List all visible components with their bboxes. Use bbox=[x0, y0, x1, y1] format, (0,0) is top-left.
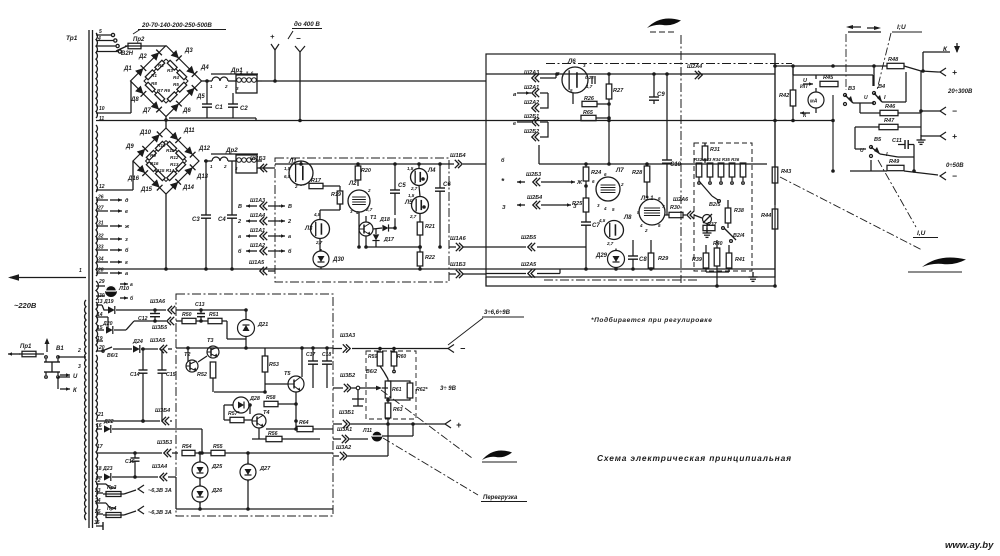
capacitor C17 bbox=[306, 346, 318, 388]
switch B2/4 bbox=[722, 227, 745, 243]
svg-text:R39: R39 bbox=[692, 257, 702, 263]
svg-text:2: 2 bbox=[223, 164, 227, 169]
svg-text:12: 12 bbox=[99, 184, 105, 190]
svg-text:С5: С5 bbox=[398, 183, 406, 189]
resistor R39 bbox=[692, 245, 709, 272]
svg-text:2,7: 2,7 bbox=[315, 240, 323, 245]
svg-text:20-70-140-200-250-500В: 20-70-140-200-250-500В bbox=[141, 22, 212, 29]
svg-text:2,7: 2,7 bbox=[365, 207, 373, 212]
svg-text:Ш1А6: Ш1А6 bbox=[450, 236, 467, 242]
tap 14 bbox=[96, 312, 108, 330]
svg-text:Д30: Д30 bbox=[332, 257, 345, 263]
svg-text:R55: R55 bbox=[213, 444, 223, 450]
tap 17 row bbox=[96, 440, 178, 457]
resistor R25 bbox=[572, 198, 589, 222]
tap 34 bbox=[96, 257, 128, 267]
svg-text:Ш2А1: Ш2А1 bbox=[524, 85, 539, 91]
capacitor C18 bbox=[322, 346, 332, 388]
svg-text:R44: R44 bbox=[761, 213, 772, 219]
svg-text:U: U bbox=[73, 374, 78, 380]
svg-text:R58: R58 bbox=[266, 395, 276, 401]
resistor R62 bbox=[388, 381, 429, 400]
svg-text:I;U: I;U bbox=[897, 24, 906, 31]
svg-text:Ш1Б3: Ш1Б3 bbox=[250, 156, 267, 162]
capacitor C8 bbox=[628, 240, 647, 269]
svg-text:18: 18 bbox=[96, 466, 102, 472]
led D27 bbox=[240, 453, 271, 509]
svg-text:б: б bbox=[288, 248, 292, 255]
svg-text:ИП: ИП bbox=[800, 84, 808, 90]
tap 24 bbox=[94, 498, 116, 508]
led D21 bbox=[238, 308, 269, 348]
svg-text:С2: С2 bbox=[240, 106, 248, 112]
unit2 dash-dot top bbox=[546, 63, 792, 65]
dash-dot diag overload2 bbox=[383, 438, 478, 495]
svg-text:С17: С17 bbox=[306, 352, 315, 358]
svg-text:Т5: Т5 bbox=[284, 371, 291, 377]
resistor R53 bbox=[262, 348, 279, 373]
svg-text:2: 2 bbox=[367, 188, 371, 193]
title schema bbox=[597, 453, 792, 463]
wire D28 T4 bbox=[224, 403, 252, 414]
svg-text:R8: R8 bbox=[151, 81, 157, 86]
label D15 bbox=[140, 187, 153, 193]
unit2 dash-dot vert bbox=[680, 35, 682, 283]
wire L1 top bbox=[299, 161, 303, 166]
svg-text:26: 26 bbox=[97, 195, 104, 201]
svg-text:Д23: Д23 bbox=[102, 466, 113, 472]
connector Sh2A4 bbox=[687, 64, 702, 79]
svg-text:R10: R10 bbox=[157, 143, 166, 148]
tap 26 bbox=[96, 195, 129, 205]
svg-text:13: 13 bbox=[97, 299, 103, 305]
tube L7 bbox=[592, 167, 624, 212]
svg-text:R46: R46 bbox=[885, 104, 896, 110]
svg-text:В4: В4 bbox=[878, 84, 886, 90]
svg-text:Пр2: Пр2 bbox=[133, 37, 145, 43]
tap label 4 bbox=[97, 36, 101, 42]
wire bridge1 bottom bbox=[164, 117, 168, 122]
main mid rail bbox=[96, 120, 775, 122]
svg-text:R57*: R57* bbox=[228, 411, 241, 417]
svg-text:5: 5 bbox=[99, 29, 102, 35]
resistor R52 bbox=[197, 362, 216, 392]
connector Sh1B4 bbox=[449, 153, 505, 168]
choke Dr2 bbox=[210, 147, 262, 173]
diode D18 bbox=[379, 217, 390, 232]
svg-text:Д20: Д20 bbox=[102, 321, 113, 327]
fuse Pr4 bbox=[94, 506, 172, 518]
transformer secondary winding 8 bbox=[96, 482, 98, 524]
panel vert x833 bbox=[831, 95, 835, 173]
wire L7 anode bbox=[608, 121, 609, 178]
svg-text:В: В bbox=[288, 204, 292, 210]
svg-text:Д7: Д7 bbox=[142, 108, 151, 114]
svg-text:Д9: Д9 bbox=[125, 144, 134, 150]
svg-text:Л8: Л8 bbox=[623, 215, 632, 221]
svg-text:з: з bbox=[125, 237, 128, 243]
arrow K meter bbox=[800, 111, 810, 119]
svg-text:2: 2 bbox=[294, 184, 298, 189]
wire bridge2 out bbox=[204, 160, 212, 162]
svg-text:С16: С16 bbox=[125, 459, 135, 465]
svg-text:б: б bbox=[501, 157, 505, 164]
svg-text:R59: R59 bbox=[368, 354, 377, 360]
transformer secondary winding 5 bbox=[96, 302, 98, 352]
wire A5 cross bbox=[274, 270, 276, 272]
row R50 R51 bbox=[176, 312, 246, 339]
svg-text:22: 22 bbox=[94, 478, 101, 484]
dash-dot to B3 bbox=[845, 34, 847, 90]
connector Sh3B1 row bbox=[333, 410, 445, 428]
svg-text:Л7: Л7 bbox=[615, 167, 624, 174]
svg-text:1,5: 1,5 bbox=[284, 166, 291, 171]
svg-text:Л2: Л2 bbox=[348, 181, 357, 187]
label D16 bbox=[127, 176, 140, 182]
label I;U top bbox=[892, 24, 922, 32]
resistor R37 bbox=[703, 222, 718, 231]
svg-text:Ш3А1: Ш3А1 bbox=[337, 427, 352, 433]
wire B5 net bbox=[855, 127, 916, 173]
svg-text:С18: С18 bbox=[322, 352, 331, 358]
return rail bbox=[96, 268, 486, 270]
svg-text:R37: R37 bbox=[707, 222, 718, 228]
svg-text:Д28: Д28 bbox=[249, 396, 260, 402]
svg-text:Ш1Б3: Ш1Б3 bbox=[450, 262, 467, 268]
svg-text:10: 10 bbox=[99, 106, 105, 112]
svg-text:2,7: 2,7 bbox=[606, 241, 614, 246]
label D8 bbox=[130, 97, 139, 103]
svg-text:2,7: 2,7 bbox=[410, 186, 418, 191]
tap label 5 bbox=[99, 29, 102, 35]
transformer secondary winding 2 bbox=[96, 125, 97, 192]
wire fuse to bridge bbox=[144, 45, 166, 47]
svg-text:В5: В5 bbox=[874, 137, 882, 143]
star note bbox=[501, 177, 506, 211]
svg-text:Л4: Л4 bbox=[427, 168, 436, 174]
wire B1 to tr bbox=[58, 348, 86, 377]
switch B6/2 bbox=[366, 369, 388, 379]
svg-text:R52: R52 bbox=[197, 372, 207, 378]
ground panel bbox=[917, 135, 926, 144]
svg-text:R54: R54 bbox=[182, 444, 192, 450]
wire R39-41 bottom bbox=[706, 272, 729, 288]
mains wire arrow bbox=[8, 268, 86, 281]
svg-text:Схема электрическая принципи: Схема электрическая принципиальная bbox=[597, 453, 792, 463]
svg-text:а: а bbox=[125, 271, 128, 277]
svg-text:0,22: 0,22 bbox=[585, 75, 594, 80]
svg-text:2: 2 bbox=[644, 228, 648, 233]
svg-text:Т1: Т1 bbox=[370, 215, 377, 221]
svg-text:Ш2Б4: Ш2Б4 bbox=[527, 195, 542, 201]
resistor R64 bbox=[266, 420, 333, 432]
resistor R48 bbox=[887, 57, 938, 72]
wire bridge2 bottom down bbox=[164, 194, 168, 271]
resistor R49 bbox=[850, 159, 938, 175]
connector Ш2Б1 bbox=[524, 114, 539, 126]
svg-text:мА: мА bbox=[810, 99, 818, 105]
transformer secondary winding 6 bbox=[96, 355, 97, 420]
dash-dot diag overload1 bbox=[381, 390, 472, 458]
tube L8 bbox=[598, 215, 632, 246]
label D14 bbox=[182, 185, 195, 191]
svg-text:С11: С11 bbox=[892, 138, 902, 144]
row Sh3A5 wire bbox=[176, 346, 333, 362]
wire B4 to R48 bbox=[872, 64, 876, 86]
svg-text:R19: R19 bbox=[331, 192, 341, 198]
svg-text:R11: R11 bbox=[166, 148, 175, 153]
svg-text:2: 2 bbox=[237, 219, 241, 225]
wire Dr1 out bbox=[262, 80, 486, 82]
tap 20 switch B6/1 bbox=[96, 345, 132, 359]
unit2 inner dashed box bbox=[694, 143, 752, 271]
svg-text:В1: В1 bbox=[56, 346, 64, 352]
wire Dr2 to connector bbox=[257, 161, 275, 168]
svg-text:R3: R3 bbox=[167, 68, 173, 73]
transistor T4 bbox=[252, 410, 270, 428]
unit1 wires bbox=[301, 185, 340, 251]
resistor R19 bbox=[331, 186, 343, 210]
svg-text:R31: R31 bbox=[710, 147, 720, 153]
connector Sh2B5 row bbox=[486, 235, 586, 251]
meter IP bbox=[800, 84, 824, 113]
label voltage row bbox=[133, 22, 226, 34]
wire T1 D17 D18 bbox=[366, 216, 420, 247]
svg-text:Д4: Д4 bbox=[200, 65, 209, 71]
svg-text:R4: R4 bbox=[173, 75, 179, 80]
terminal minus2 bbox=[940, 171, 957, 181]
resistor R44 bbox=[761, 209, 778, 288]
connector Ш1А2 bbox=[238, 243, 292, 255]
wire to B2/5 bbox=[694, 215, 702, 218]
label D3 bbox=[184, 48, 193, 54]
selector wires bbox=[699, 181, 720, 202]
switch B1 bbox=[44, 346, 64, 378]
svg-text:1: 1 bbox=[79, 268, 82, 274]
svg-text:16: 16 bbox=[96, 423, 102, 429]
resistor R22 bbox=[417, 245, 435, 271]
dashed box B6 bbox=[366, 351, 416, 419]
transistor T5 bbox=[265, 346, 304, 429]
svg-text:~6,3В 3А: ~6,3В 3А bbox=[148, 488, 172, 494]
capacitor C15 bbox=[158, 349, 176, 421]
svg-text:R17: R17 bbox=[311, 178, 322, 184]
svg-text:R9: R9 bbox=[150, 153, 156, 158]
svg-text:Ш2Б2: Ш2Б2 bbox=[524, 129, 539, 135]
svg-text:~220В: ~220В bbox=[14, 301, 37, 310]
svg-text:С8: С8 bbox=[639, 257, 647, 263]
svg-text:2: 2 bbox=[620, 182, 624, 187]
transistor T2 bbox=[184, 352, 198, 372]
resistor R57 bbox=[224, 405, 252, 423]
svg-text:С9: С9 bbox=[657, 92, 665, 98]
connector Sh2A5 row bbox=[486, 262, 560, 278]
svg-text:6,8: 6,8 bbox=[284, 174, 291, 179]
svg-text:R60: R60 bbox=[397, 354, 406, 360]
svg-text:Д15: Д15 bbox=[140, 187, 153, 193]
svg-text:Т3: Т3 bbox=[207, 338, 214, 344]
capacitor C13 bbox=[195, 302, 205, 323]
svg-text:Ш2А5: Ш2А5 bbox=[521, 262, 537, 268]
svg-text:R15 R14: R15 R14 bbox=[156, 168, 175, 173]
svg-text:R24: R24 bbox=[591, 170, 602, 176]
svg-text:R53: R53 bbox=[269, 362, 279, 368]
svg-text:С1: С1 bbox=[215, 105, 223, 111]
capacitor C11 bbox=[892, 138, 914, 149]
capacitor C1 bbox=[202, 79, 223, 118]
svg-text:R45: R45 bbox=[823, 75, 834, 81]
dash-dot diag B5 bbox=[878, 160, 916, 227]
svg-text:R20: R20 bbox=[361, 168, 371, 174]
transformer secondary winding top bbox=[96, 33, 97, 118]
connector Sh1B3 right bbox=[449, 262, 486, 278]
svg-text:Т2: Т2 bbox=[184, 352, 191, 358]
label 3-9V bbox=[440, 386, 457, 392]
svg-text:R22: R22 bbox=[425, 255, 435, 261]
tube L4 bbox=[407, 166, 436, 191]
tap 33 bbox=[96, 245, 129, 255]
svg-text:д: д bbox=[125, 198, 129, 204]
terminal minus out bbox=[448, 344, 466, 354]
svg-text:е: е bbox=[125, 209, 128, 215]
wire T4 bottom bbox=[259, 427, 298, 439]
unit1 dash-dot box bbox=[275, 158, 449, 282]
tap 18 diode D23 bbox=[96, 464, 182, 509]
terminal minus1 bbox=[940, 106, 957, 116]
terminal minus top bbox=[295, 34, 305, 122]
tube L2 bbox=[348, 181, 373, 215]
wire 120 to panel bbox=[775, 120, 833, 122]
svg-text:R62*: R62* bbox=[416, 387, 429, 393]
tap 21 row bbox=[96, 408, 172, 425]
svg-text:Д26: Д26 bbox=[211, 488, 223, 494]
svg-text:Ш3Б4: Ш3Б4 bbox=[155, 408, 170, 414]
label D2 bbox=[138, 54, 147, 60]
connector Ш1А1 bbox=[238, 228, 291, 240]
resistor R24 bbox=[583, 164, 602, 198]
unit2 bottom inner wire bbox=[486, 267, 775, 271]
unit2 mid rail bbox=[539, 162, 767, 166]
svg-text:R40: R40 bbox=[713, 241, 723, 247]
capacitor C5 bbox=[390, 162, 406, 215]
svg-text:Ш1А5: Ш1А5 bbox=[249, 260, 265, 266]
svg-text:С10: С10 bbox=[670, 162, 682, 168]
connector Sh3A1 row bbox=[333, 424, 413, 443]
svg-text:Д22: Д22 bbox=[103, 419, 114, 425]
resistor R61 bbox=[385, 379, 401, 403]
connector Ш2А2 bbox=[524, 100, 539, 112]
svg-text:а: а bbox=[130, 282, 133, 288]
wire bridge1 bottom rail bbox=[169, 118, 256, 120]
connector Sh1A5 bbox=[249, 260, 275, 275]
svg-text:Ш2Б1: Ш2Б1 bbox=[524, 114, 539, 120]
unit1 top wire bbox=[275, 163, 449, 165]
led D29 bbox=[595, 249, 625, 270]
svg-text:www.ay.by: www.ay.by bbox=[945, 540, 994, 551]
svg-text:0÷50В: 0÷50В bbox=[946, 163, 964, 169]
svg-text:Д5: Д5 bbox=[196, 94, 205, 100]
svg-text:С13: С13 bbox=[195, 302, 205, 308]
svg-text:R7 R6: R7 R6 bbox=[157, 88, 170, 93]
svg-text:I,U: I,U bbox=[917, 230, 926, 237]
svg-text:R2: R2 bbox=[158, 63, 164, 68]
label D11 bbox=[183, 128, 195, 134]
note podbiraetsya bbox=[591, 316, 712, 324]
connector Sh2B4 row bbox=[517, 195, 577, 210]
svg-text:Д6: Д6 bbox=[182, 108, 191, 114]
label D6 bbox=[182, 108, 191, 114]
labels R9-R16 bbox=[150, 143, 179, 173]
resistor R58 bbox=[264, 395, 298, 423]
label 3-6 volts bbox=[448, 310, 524, 345]
led D25 bbox=[192, 451, 223, 480]
fuse Pr1 bbox=[8, 344, 44, 357]
svg-text:R63: R63 bbox=[393, 407, 403, 413]
svg-text:R49: R49 bbox=[889, 159, 900, 165]
svg-text:Ж: Ж bbox=[576, 180, 583, 186]
dash-dot diag R43 bbox=[780, 177, 922, 250]
resistor R59 bbox=[368, 349, 384, 373]
svg-text:27: 27 bbox=[97, 206, 104, 212]
svg-text:*Подбирается при регулировке: *Подбирается при регулировке bbox=[591, 316, 712, 324]
curl artifact bottom bbox=[482, 450, 517, 462]
capacitor C12 bbox=[138, 308, 160, 323]
svg-text:Д11: Д11 bbox=[183, 128, 195, 134]
switch B1 arrow up bbox=[45, 338, 50, 352]
wire bridge2 left to tap12 bbox=[96, 161, 133, 190]
tube L1 bbox=[284, 159, 313, 189]
label D5 bbox=[196, 94, 205, 100]
svg-text:U: U bbox=[864, 95, 868, 101]
resistor R56 bbox=[252, 431, 320, 442]
svg-text:R5: R5 bbox=[173, 82, 179, 87]
svg-text:4,5: 4,5 bbox=[598, 218, 606, 223]
label V2N bbox=[121, 51, 134, 57]
transformer Tr1 label bbox=[66, 35, 78, 42]
label D7 bbox=[142, 108, 151, 114]
svg-text:Д25: Д25 bbox=[211, 464, 223, 470]
svg-text:Л5: Л5 bbox=[404, 200, 413, 206]
svg-text:Д14: Д14 bbox=[182, 185, 195, 191]
svg-text:С6: С6 bbox=[443, 182, 451, 188]
svg-text:Ш2А4: Ш2А4 bbox=[687, 64, 702, 70]
label D10 bbox=[139, 130, 152, 136]
transistor T3 bbox=[198, 338, 219, 362]
capacitor C10 bbox=[662, 74, 682, 215]
svg-text:В6/1: В6/1 bbox=[107, 353, 118, 359]
svg-text:17: 17 bbox=[97, 444, 103, 450]
capacitor C7 bbox=[581, 222, 600, 269]
svg-text:а: а bbox=[238, 234, 241, 240]
labels R1-R8 bbox=[151, 63, 179, 93]
label D13 bbox=[196, 174, 209, 180]
svg-text:4: 4 bbox=[603, 206, 607, 211]
arrow U meter bbox=[803, 78, 813, 86]
svg-text:Ш3Б1: Ш3Б1 bbox=[339, 410, 354, 416]
curl artifact right bbox=[908, 257, 966, 272]
cap 022 bbox=[585, 75, 595, 89]
svg-text:−: − bbox=[952, 171, 957, 181]
wire bridge1 left to taps bbox=[96, 81, 131, 113]
svg-text:2: 2 bbox=[77, 348, 81, 354]
svg-text:2: 2 bbox=[224, 84, 228, 89]
tap circle bbox=[96, 33, 115, 36]
svg-text:Ш3А4: Ш3А4 bbox=[152, 464, 167, 470]
svg-text:Д18: Д18 bbox=[379, 217, 390, 223]
svg-text:32: 32 bbox=[98, 234, 104, 240]
svg-text:31: 31 bbox=[98, 221, 104, 227]
watermark bbox=[945, 540, 994, 551]
